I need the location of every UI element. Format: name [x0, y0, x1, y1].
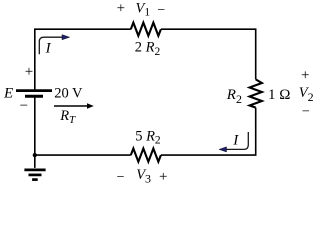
battery E (voltage source) [16, 91, 52, 97]
svg-text:I: I [45, 40, 52, 56]
svg-text:RT: RT [59, 108, 76, 126]
svg-text:E: E [3, 85, 13, 101]
current arrow I (top left) [39, 35, 69, 55]
wire: battery - terminal down to ground junction [34, 96, 36, 155]
svg-text:R2: R2 [226, 87, 242, 106]
wire: left wire from battery + terminal up and top wire to resistor [35, 29, 131, 90]
svg-text:+: + [25, 64, 33, 80]
svg-text:20 V: 20 V [54, 85, 83, 101]
svg-text:−: − [302, 104, 310, 119]
ground [24, 155, 45, 180]
svg-text:1 Ω: 1 Ω [268, 87, 290, 103]
svg-text:−: − [117, 170, 125, 185]
wire: top wire right segment and right wire down to R2 [161, 29, 256, 79]
current arrow I (bottom right) [219, 132, 248, 152]
svg-text:V2: V2 [299, 85, 314, 104]
svg-text:−: − [20, 98, 28, 114]
resistor 5R2 (bottom) [131, 149, 161, 162]
svg-text:+: + [117, 1, 125, 17]
svg-text:+: + [159, 169, 167, 185]
wire: right wire lower segment and bottom wire to resistor 5R2 [161, 108, 256, 156]
arrow RT (total resistance direction arrow) [54, 103, 94, 108]
svg-text:I: I [232, 132, 239, 148]
svg-text:5 R2: 5 R2 [135, 128, 161, 146]
svg-text:−: − [157, 3, 165, 18]
node: ground junction [33, 153, 37, 157]
resistor R2 (right, 1 ohm) [250, 79, 262, 107]
svg-text:2 R2: 2 R2 [135, 40, 161, 58]
resistor 2R2 (top) [131, 23, 161, 36]
wire: bottom wire left segment to ground junction [35, 154, 131, 156]
svg-text:V3: V3 [136, 167, 151, 186]
svg-text:V1: V1 [136, 0, 151, 18]
svg-text:+: + [301, 67, 309, 83]
